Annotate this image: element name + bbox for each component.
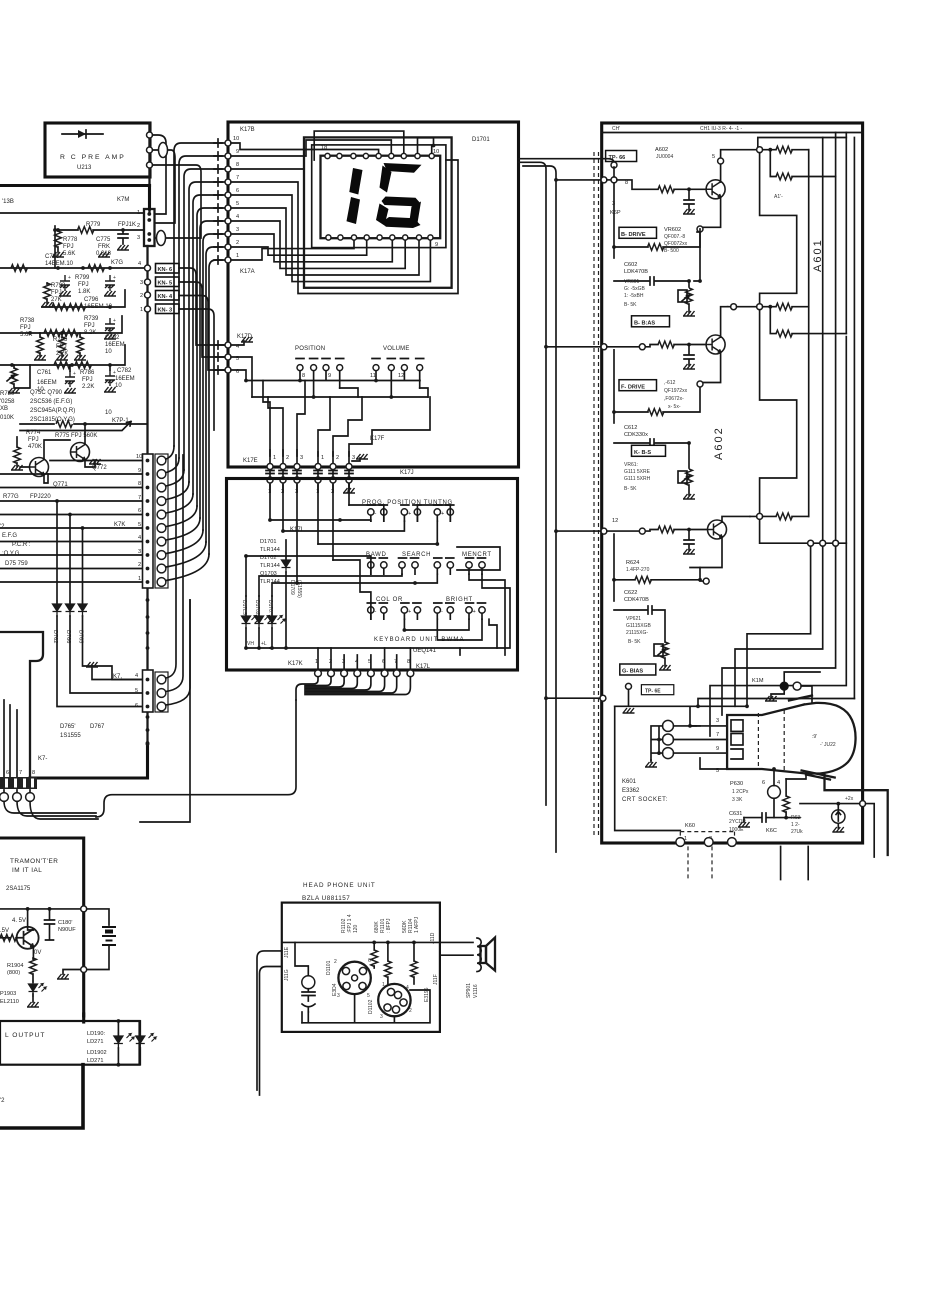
main left bus vertical K7 <box>146 246 148 744</box>
svg-text:8: 8 <box>302 373 305 379</box>
svg-text:3: 3 <box>300 455 303 461</box>
trimmer 12 <box>401 365 407 371</box>
svg-text:K17K: K17K <box>288 661 303 667</box>
svg-text:TLR144: TLR144 <box>260 579 280 585</box>
long horizontal socket feed <box>615 705 746 707</box>
svg-text:470K: 470K <box>28 444 42 450</box>
thick L bottom <box>0 1065 83 1128</box>
switch BAWD <box>367 558 387 574</box>
svg-text:A602: A602 <box>713 426 725 460</box>
svg-text:TLR144: TLR144 <box>260 563 280 569</box>
svg-text:1 2-: 1 2- <box>791 822 800 828</box>
svg-text:R63-: R63- <box>791 815 802 821</box>
L OUTPUT box <box>0 1021 140 1065</box>
svg-text:MENCRT: MENCRT <box>462 552 492 558</box>
svg-text:R774: R774 <box>26 430 41 436</box>
svg-text:: 8FPJ: : 8FPJ <box>386 918 392 933</box>
resistor <box>69 304 85 311</box>
cap pair <box>302 989 315 1001</box>
K-BAS box <box>632 445 666 456</box>
seven segment digit 1 <box>347 163 422 228</box>
wire K7G row <box>0 267 145 269</box>
svg-text:9: 9 <box>236 149 239 155</box>
KN-6 label box <box>156 264 180 274</box>
ground at K17D pin4 <box>231 341 244 345</box>
CRT tube <box>727 705 806 774</box>
G-BIAS box <box>620 664 656 675</box>
display module face <box>321 156 441 239</box>
svg-text:QF007.-8: QF007.-8 <box>664 234 685 240</box>
svg-text:K17E: K17E <box>243 458 258 464</box>
svg-text:K6P: K6P <box>610 210 621 216</box>
svg-text:FPJ: FPJ <box>56 344 67 350</box>
svg-text:R785: R785 <box>53 337 68 343</box>
svg-text:E.F.G: E.F.G <box>2 533 17 539</box>
transistor Q772 <box>71 443 90 462</box>
switch COLOR- <box>367 603 387 619</box>
svg-text:21115XG-: 21115XG- <box>626 630 648 636</box>
cable oval 2 <box>157 231 166 246</box>
bottom connector circles <box>315 648 414 677</box>
wire row 2 <box>42 290 125 307</box>
svg-text:FPJ: FPJ <box>78 282 89 288</box>
K17D pin feeds <box>231 357 252 397</box>
svg-text:1: -5xBH: 1: -5xBH <box>624 293 644 299</box>
svg-text:E3362: E3362 <box>622 788 640 794</box>
LED P1903 <box>29 980 38 997</box>
svg-text:C602: C602 <box>624 262 637 268</box>
svg-text:N90UF: N90UF <box>58 927 76 933</box>
G-DRIVE box <box>619 380 657 391</box>
R1102 <box>373 942 375 950</box>
seven segment digit 6 <box>384 163 422 173</box>
svg-text:4: 4 <box>406 985 409 991</box>
thick bus bottom <box>30 744 148 778</box>
svg-text:27Uk: 27Uk <box>791 829 803 835</box>
switch BRIGHT+ <box>466 603 486 619</box>
svg-text:1: 1 <box>321 455 324 461</box>
emitter down wire <box>700 197 721 228</box>
vertical stubs below box right <box>781 846 809 879</box>
box edge top of tuner block <box>0 184 150 187</box>
svg-text:C792: C792 <box>105 335 120 341</box>
electrolytic cap C792 <box>105 318 116 334</box>
LED LD1902 <box>118 1021 140 1065</box>
ground <box>89 459 101 464</box>
transistor ch3 <box>708 520 727 539</box>
resistor R778 vertical <box>55 231 62 247</box>
svg-text:6: 6 <box>762 780 765 786</box>
svg-text:3: 3 <box>352 455 355 461</box>
capacitor C775 <box>118 230 128 244</box>
wires from KN boxes routing down <box>179 268 228 345</box>
svg-text:+: + <box>441 511 444 517</box>
bus pin nodes on border <box>225 140 231 146</box>
connector K7J socket <box>155 672 168 712</box>
cap ch1 <box>684 189 694 210</box>
svg-text:K60: K60 <box>685 823 695 829</box>
TP-6E <box>626 683 632 689</box>
svg-text:B- 5K: B- 5K <box>624 302 637 308</box>
box edge right of tuner block <box>148 186 151 210</box>
svg-text:FPJ: FPJ <box>20 325 31 331</box>
svg-text:10: 10 <box>105 349 112 355</box>
resistor R793 vertical <box>44 283 51 299</box>
svg-text:10: 10 <box>233 136 239 142</box>
resistor <box>75 362 91 369</box>
B-BIAS box <box>632 316 670 327</box>
svg-text:FPJ220: FPJ220 <box>30 494 51 500</box>
svg-text:3: 3 <box>137 235 140 241</box>
display bottom wiring nest <box>231 241 354 261</box>
svg-text:HEAD PHONE UNiT: HEAD PHONE UNiT <box>303 882 376 889</box>
svg-text:4: 4 <box>138 261 141 267</box>
svg-text:2: 2 <box>409 1008 412 1014</box>
svg-text:9: 9 <box>328 373 331 379</box>
current source <box>832 810 845 823</box>
wire row 3 <box>0 316 122 333</box>
row3 resistors <box>757 513 763 519</box>
resistor R785 vertical <box>59 337 66 353</box>
staircase ch2-ch3 <box>760 310 797 514</box>
trimmer 8 <box>297 365 303 371</box>
svg-text:G- BIAS: G- BIAS <box>622 669 643 675</box>
svg-text:-: - <box>375 609 377 615</box>
svg-text:8: 8 <box>625 180 628 186</box>
cap ch3 <box>684 530 694 551</box>
svg-text:12: 12 <box>612 518 618 524</box>
svg-text:5: 5 <box>712 154 715 160</box>
svg-text:K7K: K7K <box>114 522 125 528</box>
svg-text:K17F: K17F <box>370 436 385 442</box>
svg-text:1: 1 <box>236 253 239 259</box>
cap C612 <box>614 439 689 447</box>
wires exiting left <box>257 951 282 1090</box>
svg-text:CDK470B: CDK470B <box>624 597 649 603</box>
svg-text:CH1 IU-3 R- 4- -1 -: CH1 IU-3 R- 4- -1 - <box>700 126 743 132</box>
svg-text:COL OR: COL OR <box>376 597 403 603</box>
svg-text:VH: VH <box>247 641 254 647</box>
wires socket to CRT <box>674 726 728 753</box>
svg-text:EL2110: EL2110 <box>0 999 19 1005</box>
svg-text:1 AFPJ: 1 AFPJ <box>414 916 420 933</box>
svg-text:3 3K: 3 3K <box>732 797 743 803</box>
diode D765 leg <box>83 528 143 680</box>
svg-text:CRT SOCKET:: CRT SOCKET: <box>622 797 668 803</box>
svg-text:2: 2 <box>336 455 339 461</box>
svg-text:'0258: '0258 <box>0 399 15 405</box>
junction dots feeding diodes <box>55 499 59 503</box>
DIN jack 2 <box>378 984 410 1016</box>
svg-text:10: 10 <box>115 383 122 389</box>
LED D1701 <box>271 596 273 648</box>
A601 inner top lines <box>758 138 847 147</box>
svg-text:010K: 010K <box>0 415 14 421</box>
connector K7K socket circles <box>155 454 168 588</box>
wires to bottom connector <box>4 700 17 777</box>
bottom rail circles <box>676 838 685 847</box>
svg-text:14EEM.10: 14EEM.10 <box>45 261 74 267</box>
resistor <box>11 265 27 272</box>
svg-text:K6C: K6C <box>766 828 777 834</box>
A601 outer box <box>602 123 863 843</box>
svg-text:VR61:: VR61: <box>624 462 638 468</box>
inner top border line <box>602 132 863 134</box>
svg-text:D762: D762 <box>52 630 58 643</box>
diode D766 leg <box>70 515 143 694</box>
svg-text:2.2K: 2.2K <box>82 384 94 390</box>
svg-text:2: 2 <box>137 223 140 229</box>
transistor Q771 <box>30 458 49 477</box>
drops to K17E <box>263 381 270 457</box>
svg-text:KN- 4: KN- 4 <box>158 294 173 300</box>
ground stub left of node <box>63 970 80 975</box>
svg-text:G111 5XRE: G111 5XRE <box>624 469 651 475</box>
KN-4 label box <box>156 291 180 301</box>
diode D inside preamp <box>62 130 103 138</box>
dots below K7J <box>146 715 150 719</box>
svg-text:BAWD: BAWD <box>366 552 387 558</box>
cap C1801 <box>45 909 55 940</box>
svg-text:8: 8 <box>236 162 239 168</box>
svg-text:1S1555: 1S1555 <box>60 733 81 739</box>
wire arrow K7P-1 <box>20 422 131 431</box>
svg-text:5: 5 <box>138 522 141 528</box>
svg-text:R775 FPJ 560K: R775 FPJ 560K <box>55 433 97 439</box>
switch POSITION+ <box>401 505 421 521</box>
svg-text:12: 12 <box>398 373 404 379</box>
svg-text:K17J: K17J <box>400 470 414 476</box>
row1 resistors <box>757 147 763 153</box>
svg-text:4: 4 <box>236 214 239 220</box>
svg-text:E3D4: E3D4 <box>332 983 338 996</box>
switch BRIGHT- <box>434 603 454 619</box>
node <box>147 147 153 153</box>
svg-text:UEQ141: UEQ141 <box>413 648 437 654</box>
svg-text:C761: C761 <box>37 370 52 376</box>
svg-text:K7,: K7, <box>113 674 122 680</box>
svg-text:,-612: ,-612 <box>664 380 676 386</box>
svg-text:J11G: J11G <box>284 969 290 981</box>
svg-text:D17L3: D17L3 <box>241 600 247 615</box>
svg-text:+2x: +2x <box>845 796 854 802</box>
svg-text:V1116: V1116 <box>473 984 479 998</box>
switch TUNING <box>434 505 454 521</box>
DIN jack 1 <box>338 962 370 994</box>
svg-text:K601: K601 <box>622 779 637 785</box>
display module mid rect <box>312 145 446 248</box>
svg-text:56DK: 56DK <box>402 920 408 933</box>
electrolytic cap <box>105 275 116 291</box>
svg-text:4: 4 <box>135 673 138 679</box>
svg-text:4. 5V: 4. 5V <box>12 918 26 924</box>
svg-text:VP621: VP621 <box>626 616 641 622</box>
bottom bus <box>302 990 430 1023</box>
headphone unit box <box>282 903 440 1032</box>
wire row R779 <box>55 229 144 231</box>
svg-text:C180': C180' <box>58 920 72 926</box>
svg-text:11: 11 <box>370 373 376 379</box>
tube dashes <box>758 710 784 772</box>
switch SEARCH <box>399 558 419 574</box>
bottom connector circles <box>0 793 8 802</box>
wire R775 row <box>20 423 148 425</box>
svg-text:8: 8 <box>138 481 141 487</box>
svg-text:10: 10 <box>136 454 142 460</box>
svg-text:,F0672x-: ,F0672x- <box>664 396 684 402</box>
wire K7M pin1 row <box>0 212 144 214</box>
switch mid <box>434 558 454 574</box>
svg-text:C796: C796 <box>84 297 99 303</box>
svg-text:R1904: R1904 <box>7 963 23 969</box>
svg-text:2: 2 <box>140 293 143 299</box>
svg-text:1.8K: 1.8K <box>78 289 90 295</box>
resistor R774 vertical <box>14 447 21 463</box>
resistor R793 row <box>52 304 68 311</box>
svg-text:FPJ: FPJ <box>28 437 39 443</box>
svg-text:C631: C631 <box>729 811 742 817</box>
svg-text:1: 1 <box>137 210 140 216</box>
svg-text:C612: C612 <box>624 425 637 431</box>
svg-text:K- B-S: K- B-S <box>634 450 651 456</box>
electrolytic C761 <box>65 371 76 387</box>
socket pin circles <box>663 720 674 731</box>
trimmer bus A <box>246 371 420 380</box>
svg-text:+: + <box>408 511 411 517</box>
svg-text:A1'-: A1'- <box>774 194 783 200</box>
wire row 4 <box>0 345 125 365</box>
svg-text:QF0072xx: QF0072xx <box>664 241 688 247</box>
svg-text:D1102: D1102 <box>368 999 374 1014</box>
socket box <box>615 706 681 830</box>
cable arcs from K7K going up <box>166 446 209 581</box>
svg-text:1: 1 <box>382 982 385 988</box>
feedback resistor row ch1 <box>614 183 700 247</box>
svg-text:R C PRE AMP: R C PRE AMP <box>60 154 126 161</box>
connector K7J body <box>143 670 154 712</box>
left edge node row4 <box>600 695 606 701</box>
svg-text:R624: R624 <box>626 560 639 566</box>
svg-text:0V: 0V <box>34 950 41 956</box>
long verticals dropping from ribbon <box>140 600 190 822</box>
svg-text:BZLA U881157: BZLA U881157 <box>302 895 350 902</box>
svg-text:P630: P630 <box>730 781 743 787</box>
svg-text:VR602: VR602 <box>664 227 681 233</box>
svg-text:(800): (800) <box>7 970 20 976</box>
svg-text:G: -5xGB: G: -5xGB <box>624 286 646 292</box>
resistor <box>54 362 70 369</box>
svg-text:R779: R779 <box>86 222 101 228</box>
svg-text:2: 2 <box>334 959 337 965</box>
svg-text:1: 1 <box>138 576 141 582</box>
svg-text:7: 7 <box>236 175 239 181</box>
cable oval <box>159 143 168 158</box>
svg-text:3: 3 <box>716 718 719 724</box>
internal top bus <box>282 941 440 943</box>
svg-text:U213: U213 <box>77 165 92 171</box>
svg-text:R786: R786 <box>80 370 95 376</box>
svg-text:B- 5K: B- 5K <box>624 486 637 492</box>
svg-text:9: 9 <box>716 746 719 752</box>
svg-text:K17A: K17A <box>240 269 255 275</box>
svg-text:QF1972xx: QF1972xx <box>664 388 688 394</box>
wire <box>153 165 202 238</box>
R1104 <box>413 942 415 961</box>
svg-text:7: 7 <box>19 770 22 776</box>
electrolytic cap <box>60 275 71 291</box>
base resistor stub <box>0 937 10 939</box>
K17B bus pins <box>233 136 239 259</box>
svg-text:CH': CH' <box>612 126 620 132</box>
wire loop to K17 bus <box>153 135 167 214</box>
svg-text:R799: R799 <box>75 275 90 281</box>
resistor <box>62 330 78 337</box>
mesh horizontals <box>270 520 371 521</box>
pot <box>7 368 17 384</box>
A601 bus verticals <box>808 150 810 517</box>
svg-text:LD271: LD271 <box>87 1058 103 1064</box>
right side staircase <box>460 574 510 655</box>
svg-text:XB: XB <box>0 406 8 412</box>
svg-text:16EEM: 16EEM <box>115 376 135 382</box>
S-route wire from keyboard <box>96 700 296 817</box>
svg-text:LD190:: LD190: <box>87 1031 105 1037</box>
svg-text:4: 4 <box>138 535 141 541</box>
module top pin circles <box>325 153 434 158</box>
svg-text:2: 2 <box>286 455 289 461</box>
cable bundle below keyboard <box>296 677 318 700</box>
R1101 <box>387 942 389 961</box>
svg-text:D75 759: D75 759 <box>5 561 28 567</box>
svg-text:B- DRIVE: B- DRIVE <box>621 232 646 238</box>
heater line <box>700 758 727 769</box>
svg-text:4: 4 <box>777 780 780 786</box>
row3 node line <box>760 519 808 543</box>
resistor R779 <box>78 227 94 234</box>
resistor ch1 base <box>658 186 674 193</box>
speaker wires <box>440 942 473 955</box>
nodes on bus <box>145 279 151 285</box>
svg-text:K17L: K17L <box>416 664 431 670</box>
diode D762 leg <box>57 501 143 707</box>
svg-text:1: 1 <box>273 455 276 461</box>
ground right of K17E <box>352 458 360 461</box>
K7K wire rows 10..1 <box>0 461 143 583</box>
svg-text:FPJ: FPJ <box>82 377 93 383</box>
cable arcs from K7J going up-right <box>166 455 190 705</box>
electrolytic C782 <box>105 370 116 386</box>
svg-text:D1101: D1101 <box>326 960 332 975</box>
left box lower edge <box>0 632 43 777</box>
trimmer bus B <box>252 371 428 397</box>
svg-text:BRIGHT: BRIGHT <box>446 597 473 603</box>
transistor ch2 <box>706 335 725 354</box>
svg-text:F- DRIVE: F- DRIVE <box>621 384 645 390</box>
node <box>147 132 153 138</box>
svg-text:-: - <box>441 609 443 615</box>
svg-text:D765': D765' <box>60 724 76 730</box>
svg-text:B- 500: B- 500 <box>664 248 679 254</box>
LED LD1901 <box>117 1021 119 1065</box>
svg-text:J11E: J11E <box>284 946 290 958</box>
collector up wire <box>721 150 757 182</box>
diode D1709 <box>285 540 287 648</box>
display unit outer box D1701 <box>228 122 519 467</box>
svg-text:1 2CPx: 1 2CPx <box>732 789 749 795</box>
svg-text:x- 5x-: x- 5x- <box>668 404 681 410</box>
svg-text:5.6K: 5.6K <box>20 332 32 338</box>
svg-text:'13B: '13B <box>2 199 14 205</box>
